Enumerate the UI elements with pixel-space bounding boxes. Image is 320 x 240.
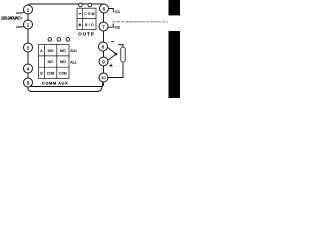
- terminal block OUTP table: [77, 8, 96, 29]
- svg-text:10: 10: [101, 76, 105, 80]
- background: [0, 0, 180, 98]
- wire bottom rail from terminal 5 to terminal 10: [28, 82, 103, 91]
- svg-text:6: 6: [103, 6, 106, 12]
- terminal 8: [99, 42, 108, 51]
- terminal 3: [24, 43, 33, 52]
- svg-text:100-240VAC~: 100-240VAC~: [1, 15, 23, 20]
- pin label plus: [78, 23, 81, 26]
- terminal 7: [99, 22, 108, 31]
- svg-text:AU1: AU1: [70, 49, 77, 53]
- wire thermocouple leg from terminal 8: [107, 47, 116, 54]
- sensor RTD bulb (capsule): [121, 47, 125, 62]
- pin label minus: [78, 13, 81, 15]
- screw terminal above OUTP col2: [88, 3, 92, 7]
- terminal 2: [24, 20, 33, 29]
- svg-text:N/O: N/O: [85, 23, 94, 27]
- terminal 1: [24, 5, 33, 14]
- screw terminal above table 1: [48, 38, 52, 42]
- screw terminal above table 2: [57, 38, 61, 42]
- svg-text:1: 1: [27, 7, 30, 13]
- svg-text:G2: G2: [115, 25, 121, 30]
- svg-text:G1: G1: [115, 9, 121, 14]
- terminal 6: [100, 4, 109, 13]
- svg-text:COM: COM: [84, 12, 94, 16]
- svg-text:N/O: N/O: [48, 49, 54, 53]
- svg-text:N/C: N/C: [48, 60, 54, 64]
- svg-text:9: 9: [102, 59, 105, 65]
- screw terminal above OUTP col1: [79, 3, 83, 7]
- svg-text:3: 3: [27, 45, 30, 51]
- node: thermocouple junction dot: [115, 53, 118, 56]
- wire sensor bottom lead to terminal 10: [108, 62, 123, 78]
- svg-text:4: 4: [27, 66, 30, 72]
- wire thermocouple leg from terminal 9: [108, 54, 116, 61]
- wire gate output G2 from terminal 7: [108, 24, 113, 28]
- svg-text:N/O: N/O: [60, 49, 66, 53]
- terminal 10: [99, 73, 108, 82]
- terminal 4: [24, 64, 33, 73]
- scan artifact black bar top: [169, 0, 181, 15]
- svg-text:7: 7: [102, 24, 105, 30]
- svg-text:COM: COM: [59, 71, 67, 75]
- svg-text:N/O: N/O: [60, 60, 66, 64]
- svg-text:5: 5: [27, 80, 30, 86]
- polarity plus sign at terminal 9: [109, 64, 112, 67]
- svg-text:Sortie de déclenchement de thy: Sortie de déclenchement de thyristor (K1…: [112, 19, 168, 23]
- svg-text:COMM AUX: COMM AUX: [42, 81, 68, 85]
- device outline U1 controller body: [28, 4, 104, 87]
- screw terminal above table 3: [66, 38, 70, 42]
- svg-text:8: 8: [102, 44, 105, 50]
- scan artifact black bar bottom: [169, 31, 181, 98]
- svg-text:COM: COM: [47, 71, 55, 75]
- terminal block COMM/AUX table: [39, 45, 70, 79]
- wire gate output G1 from terminal 6: [108, 9, 113, 13]
- wire sensor top lead hook: [118, 45, 123, 47]
- wire AC lead L1 to terminal 1: [16, 11, 25, 13]
- wire AC lead L2 to terminal 2: [16, 26, 24, 27]
- svg-text:2: 2: [27, 22, 30, 28]
- svg-text:AL1: AL1: [70, 60, 76, 64]
- polarity minus sign at terminal 8: [111, 41, 114, 43]
- terminal 5: [24, 78, 33, 87]
- terminal 9: [99, 57, 108, 66]
